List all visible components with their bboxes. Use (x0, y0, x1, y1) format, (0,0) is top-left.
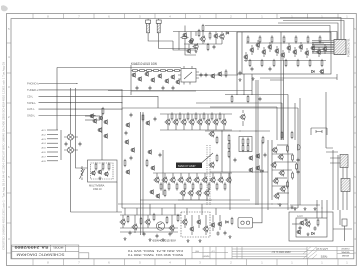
wire (221, 131, 223, 172)
ground (161, 238, 164, 241)
wire (85, 115, 100, 117)
transistor Q51 (172, 119, 178, 126)
resistor R161 (168, 182, 170, 190)
op-amp U1 (178, 66, 199, 85)
wire stub (191, 215, 193, 235)
wire selector drop (56, 68, 58, 131)
transistor Q22 (316, 49, 321, 55)
resistor R76 (247, 95, 249, 103)
input terminal TUNER (27, 88, 123, 92)
wire bus H4 (120, 214, 181, 216)
resistor R99 (242, 137, 244, 145)
wire (272, 169, 292, 171)
wire stub (134, 215, 136, 233)
transistor Q72 (169, 177, 175, 184)
wire bus V10b (257, 80, 259, 205)
capacitor C81 (79, 142, 82, 147)
wire psu drops (125, 204, 216, 215)
wire stub (156, 173, 158, 178)
diode D21 (312, 232, 315, 235)
dashed section box (181, 212, 210, 237)
wire AC line N (159, 33, 196, 49)
transistor Q23 (322, 46, 327, 52)
transistor Q60 (125, 122, 130, 128)
capacitor C31 (154, 117, 157, 122)
capacitor C61 (143, 232, 146, 237)
connector CN3 (341, 179, 350, 192)
svg-text:CD-L: CD-L (27, 94, 34, 98)
resistor R4 (207, 43, 209, 51)
resistor R134 (177, 214, 179, 222)
transistor Q103 (92, 118, 97, 124)
wire rail 2 (205, 26, 330, 41)
capacitor C80 (65, 142, 68, 147)
wire mid rail (108, 90, 252, 92)
resistor R112 (296, 162, 298, 170)
junction (239, 130, 240, 131)
transistor Q91 (208, 162, 214, 169)
rectifier D10 (64, 134, 78, 140)
junction (251, 94, 252, 95)
transistor Q54 (196, 119, 202, 126)
svg-text:6SW40 J015 90V: 6SW40 J015 90V (153, 238, 176, 242)
wire stub (288, 43, 290, 53)
wire preamp bottom rail (131, 90, 196, 92)
wire (71, 211, 123, 213)
system control board outline (237, 32, 331, 74)
junction (236, 94, 237, 95)
wire AC line L (148, 33, 173, 41)
transistor Q11 (249, 47, 254, 53)
terminal P8 (42, 160, 59, 163)
resistor R30 (307, 35, 309, 43)
hatched corner cell (303, 247, 317, 259)
wire (272, 153, 292, 155)
capacitor C60 (129, 231, 132, 236)
resistor R71 (309, 59, 311, 67)
wire V10 (255, 80, 257, 205)
diode D20 (226, 221, 229, 224)
ground (293, 207, 296, 210)
resistor R140 (231, 217, 233, 225)
wire (277, 144, 287, 146)
resistor R101 (242, 144, 244, 152)
transistor Q95b (255, 165, 260, 171)
wire stub (164, 173, 166, 178)
ground (123, 237, 126, 240)
resistor R119 (281, 131, 283, 139)
wire stub (183, 114, 185, 130)
transistor Q151 (304, 221, 310, 228)
resistor R151 (179, 112, 181, 120)
wire to box (122, 96, 158, 108)
ground (278, 203, 281, 206)
capacitor C24 (259, 97, 262, 102)
transistor Q62 (130, 147, 135, 153)
resistor R152 (187, 112, 189, 120)
capacitor C32 (159, 153, 162, 158)
capacitor C2 (213, 45, 216, 50)
junction (221, 130, 222, 131)
svg-text:5WCL 9N0 931 5WCL I500 T3: 5WCL 9N0 931 5WCL I500 T3 (127, 253, 183, 257)
wire stubs A2 (192, 38, 222, 44)
junction (191, 40, 192, 41)
wire stub (147, 215, 149, 228)
wire (116, 182, 118, 212)
transistor Q41 (217, 71, 222, 77)
transistor Q83 (203, 190, 209, 197)
transistor Q81 (187, 190, 193, 197)
wire V12 (267, 140, 269, 210)
wire mid A (184, 43, 222, 45)
ground (251, 77, 254, 80)
terminal P4 (42, 142, 59, 145)
junction (321, 207, 322, 208)
wire preamp top rail (57, 67, 181, 69)
transistor Q114 (272, 178, 278, 185)
resistor R153 (195, 112, 197, 120)
capacitor C52 (342, 219, 347, 226)
net dashed line N1 (206, 145, 208, 205)
svg-text:(4A: (4A (195, 250, 199, 253)
diode D2 (312, 70, 315, 73)
transistor Q134 (181, 219, 187, 226)
capacitor C30 (130, 113, 133, 118)
resistor R114 (287, 180, 289, 188)
resistor R92 (228, 134, 230, 142)
wire stub (220, 173, 222, 178)
transistor Q13 (261, 49, 266, 55)
resistor R66 (173, 70, 181, 72)
wire terminal bus (60, 130, 62, 160)
resistor R160 (160, 182, 162, 190)
svg-text:CRE8TED 19980#0 48101Z3E1.sch-: CRE8TED 19980#0 48101Z3E1.sch-1 - Tue Au… (2, 61, 6, 250)
resistor R110 (287, 144, 289, 152)
input terminal AUX (27, 107, 123, 111)
transistor Q113 (278, 170, 284, 177)
revision table (232, 247, 307, 259)
wire stub (204, 173, 206, 178)
junction (75, 109, 76, 110)
capacitor C51 (297, 170, 300, 175)
wire bus B1 (225, 94, 288, 96)
capacitor C1 (191, 39, 194, 42)
transistor Q64 (145, 120, 150, 126)
resistor R168 (224, 182, 226, 190)
transistor Q94 (248, 167, 253, 173)
wire stub (251, 45, 253, 55)
transistor Q97 (104, 171, 109, 177)
capacitor C71 (314, 226, 317, 231)
capacitor C21 (205, 73, 208, 78)
title block right (307, 247, 354, 259)
svg-text:MMMMI: MMMMI (342, 256, 350, 258)
transistor Q5 (182, 32, 187, 38)
transistor Q20 (304, 50, 309, 56)
wire stub (199, 114, 201, 130)
wire bus V7 (142, 112, 144, 235)
wire long vertical V1 (287, 95, 289, 211)
resistor R154 (203, 112, 205, 120)
wire bus H6 (120, 227, 178, 229)
junction (271, 203, 272, 204)
wire stub (212, 173, 214, 178)
wire stub (122, 215, 124, 228)
wire stub (306, 48, 308, 58)
transistor Q136 (196, 219, 201, 225)
wire stub (300, 42, 302, 52)
connector CN1 (312, 40, 346, 55)
transistor Q112 (270, 162, 276, 169)
resistor R26 (259, 35, 261, 43)
transistor Q90 (208, 131, 214, 138)
diode D11 (261, 170, 264, 173)
resistor R97 (102, 107, 104, 115)
wire (85, 119, 100, 121)
wire vertical V3 (276, 107, 278, 140)
capacitor C23 (239, 71, 242, 76)
transistor Q150 (299, 220, 304, 226)
connector CN2 (340, 155, 348, 168)
resistor R75 (231, 95, 233, 103)
wire block bus (244, 60, 326, 62)
resistor R83 (164, 189, 166, 197)
wire row3 rail (178, 199, 212, 201)
net dashed line N2 (209, 145, 211, 205)
svg-text:POWER CN701: POWER CN701 (347, 38, 351, 57)
transistor Q57 (220, 119, 226, 126)
junction (70, 102, 71, 103)
terminal P6 (42, 151, 59, 154)
transistor Q34 (157, 73, 162, 79)
transistor Q82 (195, 190, 201, 197)
transistor Q4 (192, 43, 198, 50)
transistor Q53 (188, 119, 194, 126)
wire input header (121, 90, 123, 108)
wire driver rail bottom (160, 129, 232, 131)
transistor Q16 (280, 52, 285, 58)
resistor R65 (249, 59, 251, 67)
resistor R95 (95, 162, 97, 170)
wire (275, 177, 287, 179)
input terminal CD (27, 94, 123, 98)
svg-text:TUNER-L: TUNER-L (27, 88, 39, 92)
wire stub (206, 195, 208, 200)
ground (228, 235, 231, 238)
transistor Q99 (103, 119, 108, 125)
wire stub (263, 47, 265, 57)
wire bus B3 (210, 106, 277, 108)
resistor R70 (225, 69, 227, 77)
capacitor C34 (130, 156, 133, 161)
terminal P2 (42, 133, 59, 136)
wire vertical to block 2 (243, 74, 245, 95)
svg-text:MODEL: MODEL (52, 246, 63, 250)
main amplifier section outline (122, 108, 298, 208)
wire drops into box (317, 200, 327, 218)
svg-text:KIA JNN 4L74 5WCL 9V0 T3: KIA JNN 4L74 5WCL 9V0 T3 (127, 249, 183, 253)
transistor Q78 (217, 177, 223, 184)
svg-text:5(I5A): 5(I5A) (321, 256, 328, 259)
wire stubs A (196, 32, 228, 37)
resistor R166 (208, 182, 210, 190)
transistor Q130 (119, 219, 125, 226)
capacitor C10 (136, 86, 139, 91)
terminal P1 (42, 129, 59, 132)
wire V11 (261, 140, 263, 210)
wire stub (318, 47, 320, 57)
wire rail 3 (280, 18, 341, 43)
wire mid cluster bottom (210, 171, 268, 173)
resistor R28 (283, 35, 285, 43)
transistor Q102 (89, 113, 94, 119)
transistor Q70 (153, 177, 159, 184)
svg-text:AUX-L: AUX-L (27, 107, 35, 111)
capacitor C72 (305, 218, 308, 223)
junction (255, 130, 256, 131)
transistor Q65 (147, 149, 152, 155)
wire vertical V5 (325, 92, 327, 148)
wire V9 (229, 140, 231, 210)
resistor R2 (209, 31, 211, 39)
transistor Q17 (286, 45, 291, 51)
wire stub (184, 215, 186, 228)
svg-text:4#I: 4#I (211, 251, 214, 253)
resistor R130 (127, 215, 129, 223)
transistor Q18 (292, 49, 297, 55)
wire (253, 210, 263, 223)
transistor Q40 (210, 73, 215, 79)
resistor R131 (140, 217, 142, 225)
wire link LA (280, 32, 282, 140)
wire stub (242, 110, 244, 126)
wire bus links (326, 148, 347, 163)
transistor Q33 (150, 77, 155, 83)
wire stub (205, 215, 207, 235)
transistor Q75 (193, 177, 199, 184)
wire rail 4 (283, 21, 344, 45)
wire (101, 108, 103, 160)
wire stub (175, 114, 177, 130)
wire rail drop 1 (70, 88, 72, 147)
wire bus H5 (120, 231, 178, 233)
resistor R113 (292, 171, 294, 179)
transistor Q95 (91, 170, 96, 176)
bias network box (239, 137, 252, 152)
wire (130, 65, 132, 95)
wire stub (223, 114, 225, 130)
resistor R94 (228, 150, 230, 158)
svg-text:(M-MMLI: (M-MMLI (342, 249, 350, 251)
wire bus B2 (196, 102, 282, 104)
resistor R100 (247, 137, 249, 145)
wire link LD (336, 74, 338, 80)
transistor Q79 (225, 177, 231, 184)
wire stub (219, 215, 221, 230)
resistor R81 (142, 113, 144, 121)
transistor Q19 (298, 44, 303, 50)
resistor R164 (192, 182, 194, 190)
ground (306, 233, 309, 236)
capacitor C13 (172, 86, 175, 91)
wire bus R3 (342, 160, 344, 210)
resistor R156 (219, 112, 221, 120)
wire (299, 140, 301, 205)
resistor R82 (146, 159, 148, 167)
wire stub (190, 195, 192, 200)
resistor R62 (145, 70, 153, 72)
wire stub (188, 173, 190, 178)
wire (292, 223, 300, 225)
wire stub (282, 50, 284, 60)
resistor R167 (216, 182, 218, 190)
wire stub (294, 47, 296, 57)
wire stub (171, 215, 173, 234)
wire vertical to block (236, 32, 238, 95)
resistor R67 (273, 59, 275, 67)
wire mid cluster rail (205, 130, 270, 132)
wire bus R4 (346, 165, 348, 210)
wire stub (182, 195, 184, 200)
wire link LC (260, 77, 337, 79)
wire (274, 161, 296, 163)
junction (56, 96, 57, 97)
relay RY1 (238, 218, 253, 229)
capacitor C64 (217, 231, 220, 236)
junction (243, 94, 244, 95)
ground (303, 207, 306, 210)
transistor Q96 (97, 169, 102, 175)
rectifier D13 (64, 147, 78, 153)
capacitor C4 (269, 67, 272, 72)
transistor Q131 (131, 224, 137, 231)
transistor Q31 (137, 76, 142, 82)
resistor R150 (171, 112, 173, 120)
wire bus R2 (337, 155, 339, 210)
wire stub (207, 114, 209, 130)
transistor Q37 (175, 79, 180, 85)
svg-text:AT-TI-VIVT: AT-TI-VIVT (316, 248, 328, 251)
wire rail drop 2 (76, 88, 88, 168)
resistor R90 (216, 136, 218, 144)
capacitor C3 (251, 67, 254, 72)
transistor Q76 (201, 177, 207, 184)
wire bus H3 (122, 207, 298, 209)
transistor Q135 (189, 226, 194, 232)
resistor R61 (138, 70, 146, 72)
resistor R132 (153, 213, 155, 221)
power transistor Q129 (156, 222, 164, 230)
resistor R1 (180, 37, 188, 39)
transistor Q71 (161, 177, 167, 184)
wire stub (198, 215, 200, 228)
ground (98, 177, 101, 180)
resistor R102 (247, 144, 249, 152)
wire ground bus (290, 204, 320, 206)
transistor Q80 (179, 190, 185, 197)
wire stub (245, 52, 247, 62)
wire stub (228, 173, 230, 178)
capacitor C12 (162, 86, 165, 91)
wire (333, 228, 352, 230)
wire (299, 98, 301, 140)
transistor Q132 (144, 219, 150, 226)
resistor R91 (216, 154, 218, 162)
capacitor C63 (169, 232, 172, 237)
input terminal TAPE (27, 101, 123, 105)
transistor Q50 (164, 119, 170, 126)
junction (316, 204, 317, 205)
